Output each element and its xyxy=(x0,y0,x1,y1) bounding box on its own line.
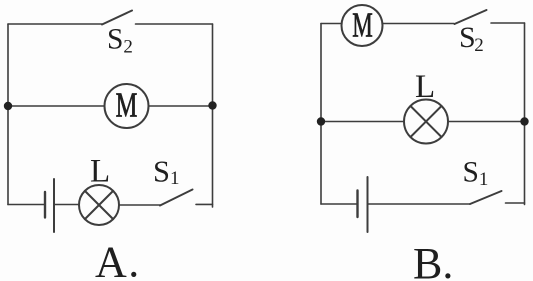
lamp L (A) circle xyxy=(79,185,119,225)
wire: B bottom left segment xyxy=(321,203,357,205)
wire: A top left segment xyxy=(8,23,102,25)
wire: B right vertical xyxy=(524,23,526,205)
svg-text:M: M xyxy=(116,85,138,124)
junction node right (A) xyxy=(208,101,216,109)
wire: A top right segment xyxy=(136,23,213,25)
wire: A right vertical xyxy=(212,24,214,207)
switch S1 (A) blade xyxy=(160,190,193,206)
wire: A middle right segment xyxy=(149,105,213,107)
lamp L (B) cross stroke 1 xyxy=(411,106,442,137)
junction node right (B) xyxy=(520,117,528,125)
wire: B middle left segment xyxy=(321,121,404,123)
lamp L (A) cross stroke 1 xyxy=(85,191,113,219)
battery (A) short plate xyxy=(44,192,46,218)
wire: battery to lamp (A) xyxy=(55,204,80,206)
switch S2 (A) blade xyxy=(102,11,132,25)
wire: A left vertical xyxy=(7,24,9,205)
switch S2 (B) right contact wire xyxy=(491,22,525,24)
wire: lamp to switch S1 (A) xyxy=(119,204,160,206)
switch S1 (A) right contact wire xyxy=(196,203,213,205)
lamp L (B) cross stroke 2 xyxy=(411,106,442,137)
battery (B) short plate xyxy=(356,191,358,218)
wire: A middle left segment xyxy=(8,105,105,107)
wire: A bottom left segment xyxy=(8,204,45,206)
lamp L (B) circle xyxy=(404,100,448,144)
wire: B left vertical xyxy=(320,24,322,205)
svg-text:L: L xyxy=(415,69,435,105)
battery (B) long plate xyxy=(367,177,369,232)
svg-text:B.: B. xyxy=(413,239,453,281)
lamp L (A) cross stroke 2 xyxy=(85,191,113,219)
motor M (A) circle xyxy=(105,84,149,128)
motor M (B) circle xyxy=(342,5,383,46)
battery (A) long plate xyxy=(53,179,55,232)
wire: B middle right segment xyxy=(448,121,525,123)
switch S2 (B) blade xyxy=(455,10,487,24)
junction node left (A) xyxy=(4,102,12,110)
switch S1 (B) blade xyxy=(470,191,502,204)
junction node left (B) xyxy=(317,117,325,125)
svg-text:L: L xyxy=(90,154,110,190)
svg-text:A.: A. xyxy=(95,238,141,281)
wire: battery to switch S1 (B) xyxy=(368,203,470,205)
wire: motor to switch S2 (B) xyxy=(383,23,455,25)
wire: B top left segment xyxy=(321,23,342,25)
switch S1 (B) right contact wire xyxy=(506,202,525,204)
svg-text:M: M xyxy=(352,7,373,45)
